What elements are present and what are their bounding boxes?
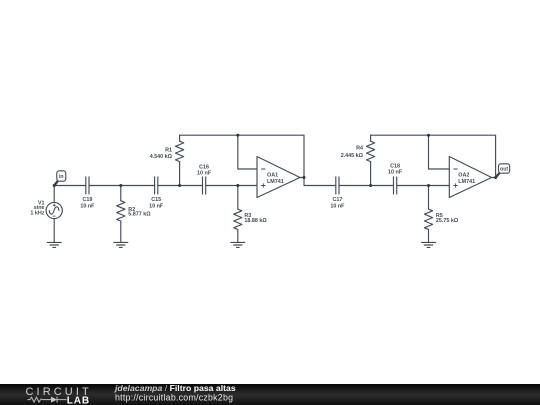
wire V1 bottom lead bbox=[53, 219, 55, 243]
node R3 / OA1 plus bbox=[236, 184, 239, 187]
wire feedback stage2 to minus input bbox=[429, 135, 450, 169]
node OA1 output bbox=[303, 176, 306, 179]
capacitor C19 bbox=[86, 177, 89, 194]
svg-text:OA1: OA1 bbox=[267, 172, 278, 178]
svg-text:in: in bbox=[59, 174, 64, 180]
node junction dots bbox=[53, 134, 497, 187]
op-amp OA2 bbox=[449, 157, 495, 198]
node R1 bottom bbox=[178, 184, 181, 187]
capacitor C16 bbox=[203, 177, 206, 194]
svg-text:http://circuitlab.com/czbk2bg: http://circuitlab.com/czbk2bg bbox=[115, 393, 233, 403]
wire C15 to R1 node to C16 bbox=[158, 185, 203, 187]
svg-text:2.445 kΩ: 2.445 kΩ bbox=[341, 153, 364, 159]
svg-text:18.88 kΩ: 18.88 kΩ bbox=[244, 218, 267, 224]
svg-text:10 nF: 10 nF bbox=[330, 203, 345, 209]
resistor R2 bbox=[117, 186, 125, 243]
node R4 bottom bbox=[369, 184, 372, 187]
svg-text:LM741: LM741 bbox=[267, 179, 284, 185]
resistor R5 bbox=[424, 186, 432, 243]
svg-text:C17: C17 bbox=[332, 197, 342, 203]
capacitor C17 bbox=[336, 177, 339, 194]
ground (V1) bbox=[47, 242, 61, 247]
ground (R2) bbox=[114, 242, 128, 247]
resistor R4 bbox=[367, 135, 375, 185]
op-amp OA1 bbox=[257, 157, 304, 198]
node R5 / OA2 plus bbox=[427, 184, 430, 187]
wire C17 to R4 node to C18 bbox=[339, 185, 394, 187]
svg-text:R4: R4 bbox=[356, 146, 363, 152]
svg-text:out: out bbox=[500, 167, 508, 173]
svg-text:25.75 kΩ: 25.75 kΩ bbox=[436, 218, 459, 224]
svg-text:LAB: LAB bbox=[67, 395, 90, 405]
wire feedback stage1 to minus input bbox=[238, 135, 257, 169]
ground (R3) bbox=[231, 242, 245, 247]
svg-text:10 nF: 10 nF bbox=[197, 171, 212, 177]
svg-text:C18: C18 bbox=[390, 164, 400, 170]
wire C19 to R2 node to C15 bbox=[89, 185, 155, 187]
capacitor C18 bbox=[394, 177, 397, 194]
svg-text:C19: C19 bbox=[82, 197, 92, 203]
node V1/in bbox=[53, 184, 56, 187]
flag out bbox=[496, 164, 510, 178]
wire main input segment bbox=[54, 185, 86, 187]
svg-text:5.877 kΩ: 5.877 kΩ bbox=[128, 212, 151, 218]
component labels bbox=[30, 146, 475, 224]
resistor R1 bbox=[176, 135, 184, 185]
svg-text:LM741: LM741 bbox=[458, 179, 475, 185]
node R2 bbox=[119, 184, 122, 187]
node feedback2 minus tap bbox=[427, 134, 430, 137]
node feedback1 minus tap bbox=[236, 134, 239, 137]
flag in bbox=[54, 171, 66, 186]
wire OA1 output down and right to C17 bbox=[304, 178, 336, 186]
wire V1 top lead bbox=[53, 186, 55, 203]
svg-text:C16: C16 bbox=[199, 164, 209, 170]
wire feedback stage1 top bbox=[180, 135, 304, 177]
wire C16 to R3 node to OA1 plus input bbox=[206, 185, 257, 187]
svg-text:10 nF: 10 nF bbox=[80, 203, 95, 209]
svg-text:C15: C15 bbox=[151, 197, 161, 203]
svg-text:4.540 kΩ: 4.540 kΩ bbox=[150, 154, 173, 160]
svg-text:R1: R1 bbox=[165, 147, 172, 153]
svg-text:10 nF: 10 nF bbox=[388, 170, 403, 176]
svg-text:OA2: OA2 bbox=[458, 172, 469, 178]
ground (R5) bbox=[422, 242, 436, 247]
logo resistor-diode glyph bbox=[28, 397, 67, 403]
wire feedback stage2 top bbox=[371, 135, 496, 177]
wire C18 to R5 node to OA2 plus input bbox=[397, 185, 450, 187]
resistor R3 bbox=[234, 186, 242, 243]
capacitor C15 bbox=[155, 177, 158, 194]
svg-text:1 kHz: 1 kHz bbox=[30, 211, 44, 217]
node OA2 output bbox=[494, 176, 497, 179]
svg-text:10 nF: 10 nF bbox=[149, 203, 164, 209]
voltage source V1 bbox=[46, 202, 62, 218]
